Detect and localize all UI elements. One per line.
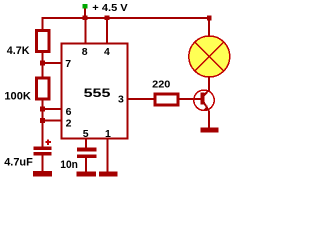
node junction pin2 (40, 118, 45, 123)
svg-text:220: 220 (152, 79, 170, 91)
resistor R1 4.7K (37, 30, 50, 51)
lamp LP1 (189, 36, 230, 77)
wire left branch top (rail to R1) (42, 17, 44, 30)
node junction rail pin8 (83, 15, 88, 20)
wire C2 to ground (85, 158, 87, 172)
pin 8 wire (84, 17, 86, 44)
ground below pin1 (99, 172, 118, 177)
svg-text:10n: 10n (60, 159, 78, 171)
ground below C2 (77, 172, 97, 177)
svg-text:6: 6 (66, 106, 72, 118)
lamp X stroke 1 (195, 42, 224, 71)
lamp X stroke 2 (195, 42, 224, 71)
wire pin2 (42, 120, 62, 122)
svg-text:7: 7 (65, 58, 71, 70)
svg-text:5: 5 (83, 128, 89, 140)
transistor Q1 base bar (200, 93, 204, 105)
wire rail to lamp (208, 17, 210, 36)
wire R1 to junction (42, 52, 44, 78)
wire green terminal stub (84, 9, 86, 19)
pin 1 wire (107, 139, 109, 173)
svg-text:8: 8 (82, 46, 88, 58)
svg-text:555: 555 (84, 86, 111, 100)
capacitor C1 4.7uF plus sign (45, 139, 51, 145)
svg-text:+ 4.5 V: + 4.5 V (92, 2, 127, 14)
resistor R3 220 (155, 94, 178, 105)
svg-text:4: 4 (104, 46, 110, 58)
transistor Q1 circle (194, 90, 214, 110)
resistor R2 100K (37, 78, 50, 99)
wire R2 to C1 (42, 99, 44, 147)
op-amp U1 555 timer box (62, 44, 128, 139)
node junction pin6 (40, 107, 45, 112)
svg-text:2: 2 (66, 118, 72, 130)
node junction rail pin4 (105, 15, 110, 20)
transistor Q1 emitter line (204, 103, 209, 111)
pin 3 wire (128, 98, 155, 100)
wire R3 to transistor base (179, 98, 201, 100)
wire emitter to ground (208, 111, 210, 129)
svg-text:100K: 100K (4, 90, 31, 102)
transistor Q1 emitter arrow (204, 105, 209, 111)
wire pin7 (42, 62, 62, 64)
ground below C1 (33, 171, 52, 176)
capacitor C2 10n (77, 148, 97, 152)
svg-text:4.7K: 4.7K (7, 45, 30, 57)
transistor Q1 collector line (204, 90, 209, 96)
wire lamp to transistor collector (208, 77, 210, 91)
svg-text:3: 3 (118, 94, 124, 106)
ground below Q1 (201, 128, 219, 133)
svg-text:4.7uF: 4.7uF (4, 157, 33, 169)
node corner rail right (207, 16, 212, 21)
wire C1 to ground (42, 156, 44, 173)
capacitor C1 4.7uF (34, 147, 52, 151)
wire top rail (42, 17, 211, 19)
node junction R1/R2/pin7 (40, 61, 45, 66)
node +4.5V green terminal (83, 4, 88, 9)
pin 4 wire (106, 17, 108, 44)
svg-text:1: 1 (105, 128, 111, 140)
pin 5 wire (85, 139, 87, 149)
wire pin6 (42, 108, 62, 110)
